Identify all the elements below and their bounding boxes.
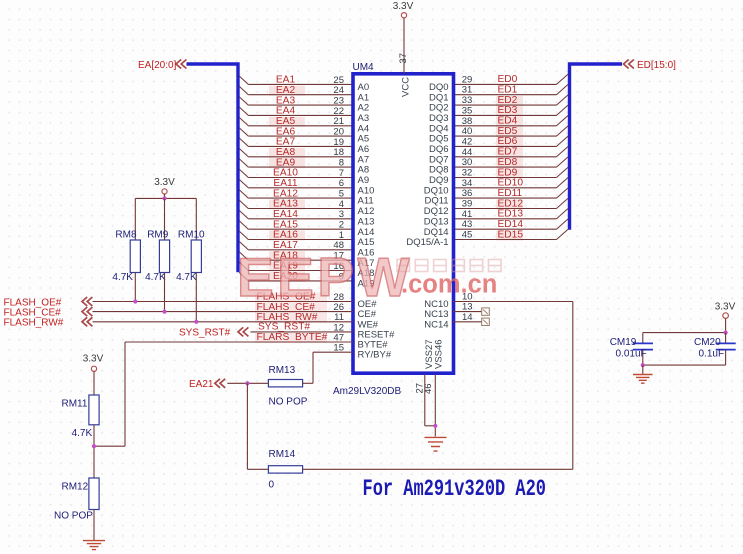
svg-text:0.01uF: 0.01uF <box>616 349 647 360</box>
svg-text:FLASH_RW#: FLASH_RW# <box>4 318 64 329</box>
chip body fill <box>353 74 454 373</box>
wire RM10 top lead <box>195 198 197 240</box>
svg-text:For Am291v320D A20: For Am291v320D A20 <box>363 476 547 503</box>
svg-text:0.1uF: 0.1uF <box>699 349 725 360</box>
resistor RM10 <box>191 240 201 273</box>
EA bus <box>187 64 239 272</box>
wire ED15 / bus entry <box>453 239 557 241</box>
wire ED5 / bus entry <box>453 135 557 137</box>
wire FLASH_RW# <box>93 321 354 323</box>
wire power to RM11 <box>93 371 95 395</box>
svg-text:45: 45 <box>462 230 473 241</box>
svg-text:EA9: EA9 <box>276 157 296 168</box>
svg-text:DQ11: DQ11 <box>424 196 448 207</box>
wire RM8 top lead <box>134 198 136 240</box>
wire to ground <box>642 365 644 374</box>
wire EA19 / bus entry <box>239 262 248 270</box>
wire bottom rail caps <box>643 364 726 366</box>
wire VCC <box>403 18 405 74</box>
junction RM9/CE <box>162 310 166 314</box>
resistor RM13 <box>268 380 302 387</box>
junction rail <box>162 196 166 200</box>
wire EA15 / bus entry <box>239 221 248 229</box>
svg-text:4.7K: 4.7K <box>145 272 166 283</box>
wire RM12 to ground <box>93 510 95 541</box>
svg-text:RM10: RM10 <box>178 230 205 241</box>
svg-text:3.3V: 3.3V <box>715 302 736 313</box>
svg-text:3.3V: 3.3V <box>393 1 414 12</box>
wire EA18 / bus entry <box>239 252 248 260</box>
wire EA6 / bus entry <box>239 128 248 136</box>
svg-text:A8: A8 <box>358 165 370 176</box>
svg-text:19: 19 <box>333 137 344 148</box>
wire ED9 / bus entry <box>453 177 557 179</box>
svg-text:4.7K: 4.7K <box>176 272 197 283</box>
port EA[20:0] <box>176 60 186 69</box>
svg-text:4.7K: 4.7K <box>72 428 93 439</box>
wire EA16 / bus entry <box>239 231 248 239</box>
no-connect box pin 13 <box>482 308 490 315</box>
svg-text:EEPW: EEPW <box>237 246 413 308</box>
svg-text:30: 30 <box>462 157 473 168</box>
wire EA4 / bus entry <box>239 107 248 115</box>
svg-text:37: 37 <box>398 53 409 64</box>
svg-text:ED8: ED8 <box>498 157 518 168</box>
svg-text:22: 22 <box>333 106 344 117</box>
svg-text:EA12: EA12 <box>273 188 298 199</box>
svg-text:.com.cn: .com.cn <box>401 271 497 299</box>
svg-text:3.3V: 3.3V <box>83 353 104 364</box>
svg-text:RM9: RM9 <box>147 230 169 241</box>
svg-text:42: 42 <box>462 136 473 147</box>
wire EA10 / bus entry <box>239 169 248 177</box>
wire EA12 / bus entry <box>239 190 248 198</box>
svg-text:EA14: EA14 <box>273 209 298 220</box>
svg-text:14: 14 <box>462 312 473 323</box>
flash memory U M4 Am29LV320DB chip body <box>353 74 454 373</box>
svg-text:A13: A13 <box>358 216 375 227</box>
svg-text:FLARS_BYTE#: FLARS_BYTE# <box>257 332 328 343</box>
svg-text:ED11: ED11 <box>498 188 523 199</box>
ground caps <box>633 375 653 384</box>
svg-text:CM19: CM19 <box>610 337 637 348</box>
wire FLAHS_BYTE# <box>125 341 353 343</box>
svg-text:RY/BY#: RY/BY# <box>358 350 392 361</box>
wire EA21 <box>227 382 268 384</box>
wire RM11 bottom <box>93 425 95 478</box>
wire EA20 / bus entry <box>239 273 248 281</box>
svg-text:EA7: EA7 <box>276 137 296 148</box>
svg-text:24: 24 <box>333 85 344 96</box>
svg-text:3: 3 <box>339 209 344 220</box>
svg-text:A1: A1 <box>358 92 370 103</box>
wire VSS27 <box>424 374 426 426</box>
wire ED13 / bus entry <box>453 218 557 220</box>
svg-text:RM11: RM11 <box>62 398 88 409</box>
junction RM10/RW <box>194 320 198 324</box>
wire NC14 stub <box>453 321 482 323</box>
capacitor CM19 <box>642 333 644 343</box>
wire ED7 / bus entry <box>453 156 557 158</box>
svg-text:ED6: ED6 <box>498 136 518 147</box>
svg-text:41: 41 <box>462 209 473 220</box>
svg-text:RM13: RM13 <box>269 365 296 376</box>
decorative halo group <box>269 86 305 96</box>
wire EA17 / bus entry <box>239 241 248 249</box>
junction RM8/OE <box>133 299 137 303</box>
svg-text:NO POP: NO POP <box>54 511 93 522</box>
svg-text:5: 5 <box>339 189 344 200</box>
wire RM9 top lead <box>164 198 166 240</box>
wire power down <box>725 318 727 332</box>
wire ED14 / bus entry <box>453 228 557 230</box>
svg-text:RM8: RM8 <box>115 230 137 241</box>
wire EA1 / bus entry <box>239 76 248 84</box>
svg-text:8: 8 <box>339 158 344 169</box>
decorative watermark <box>237 246 413 308</box>
ED bus <box>570 64 623 230</box>
svg-text:NC14: NC14 <box>424 319 448 330</box>
svg-text:NO POP: NO POP <box>269 396 308 407</box>
svg-text:0: 0 <box>269 479 275 490</box>
svg-text:Am29LV320DB: Am29LV320DB <box>333 386 402 397</box>
junction bottom left <box>641 363 645 367</box>
svg-text:DQ3: DQ3 <box>429 113 449 124</box>
svg-text:UM4: UM4 <box>353 62 375 73</box>
wire EA7 / bus entry <box>239 138 248 146</box>
svg-text:ED[15:0]: ED[15:0] <box>637 60 676 71</box>
junction RM11/BYTE wire <box>92 444 96 448</box>
wire ED0 / bus entry <box>453 83 557 85</box>
svg-text:A6: A6 <box>358 144 370 155</box>
junction EA21 <box>245 381 249 385</box>
wire top rail caps <box>643 332 726 334</box>
wire top rail <box>135 197 196 199</box>
svg-text:EA[20:0]: EA[20:0] <box>138 60 177 71</box>
wire ED11 / bus entry <box>453 197 557 199</box>
wire EA2 / bus entry <box>239 86 248 94</box>
svg-text:SYS_RST#: SYS_RST# <box>179 328 231 339</box>
svg-text:RM12: RM12 <box>62 482 89 493</box>
svg-text:ED13: ED13 <box>498 209 524 220</box>
wire ED6 / bus entry <box>453 145 557 147</box>
capacitor CM20 <box>725 333 727 343</box>
svg-text:ED3: ED3 <box>498 105 518 116</box>
wire ED8 / bus entry <box>453 166 557 168</box>
svg-text:35: 35 <box>462 105 473 116</box>
svg-text:DQ1: DQ1 <box>429 92 449 103</box>
wire EA9 / bus entry <box>239 159 248 167</box>
wire EA3 / bus entry <box>239 97 248 105</box>
junction top right <box>724 331 728 335</box>
svg-text:4.7K: 4.7K <box>112 272 133 283</box>
no-connect box pin 14 <box>482 318 490 325</box>
wire RM14 to pin10 <box>303 468 573 470</box>
svg-text:ED1: ED1 <box>498 85 518 96</box>
wire RM10 bottom lead <box>195 273 197 322</box>
svg-text:RM14: RM14 <box>269 449 296 460</box>
wire RM9 bottom lead <box>164 273 166 312</box>
resistor RM11 <box>89 395 99 425</box>
wire ED3 / bus entry <box>453 114 557 116</box>
resistor RM12 <box>89 478 99 510</box>
wire EA5 / bus entry <box>239 117 248 125</box>
wire FLASH_OE# <box>93 301 354 303</box>
svg-text:EA21: EA21 <box>189 379 214 390</box>
wire EA8 / bus entry <box>239 148 248 156</box>
wire ED2 / bus entry <box>453 104 557 106</box>
resistor RM14 <box>268 466 302 473</box>
svg-text:VCC: VCC <box>401 77 412 97</box>
wire ED12 / bus entry <box>453 208 557 210</box>
svg-text:SYS_RST#: SYS_RST# <box>258 322 310 333</box>
svg-text:EA4: EA4 <box>276 106 296 117</box>
svg-text:A11: A11 <box>358 196 374 207</box>
resistor RM9 <box>159 240 169 273</box>
ground below chip <box>425 437 447 451</box>
wire EA11 / bus entry <box>239 179 248 187</box>
wire FLASH_CE# <box>93 311 354 313</box>
wire NC13 stub <box>453 311 482 313</box>
wire power to rail <box>164 194 166 198</box>
resistor RM8 <box>130 240 140 273</box>
wire EA21 down to RM14 <box>246 383 248 469</box>
svg-text:A3: A3 <box>358 113 370 124</box>
ground RM12 <box>83 541 105 550</box>
svg-text:31: 31 <box>462 85 473 96</box>
wire EA14 / bus entry <box>239 210 248 218</box>
wire ED4 / bus entry <box>453 125 557 127</box>
wire VSS46 <box>434 374 436 436</box>
svg-text:ED15: ED15 <box>498 229 524 240</box>
svg-text:VSS46: VSS46 <box>434 339 445 369</box>
svg-text:36: 36 <box>462 188 473 199</box>
wire ED1 / bus entry <box>453 94 557 96</box>
port ED[15:0] <box>624 60 634 69</box>
svg-text:EA2: EA2 <box>276 85 296 96</box>
svg-text:DQ8: DQ8 <box>429 165 449 176</box>
wire SYS_RST# <box>251 331 354 333</box>
wire EA13 / bus entry <box>239 200 248 208</box>
svg-text:3.3V: 3.3V <box>154 177 175 188</box>
svg-text:DQ13: DQ13 <box>424 216 449 227</box>
svg-text:CM20: CM20 <box>694 337 721 348</box>
wire RM13 to RY/BY# <box>303 382 313 384</box>
svg-text:DQ6: DQ6 <box>429 144 449 155</box>
wire ED10 / bus entry <box>453 187 557 189</box>
wire NC10 to RM14 <box>453 301 573 303</box>
wire RM8 bottom lead <box>134 273 136 302</box>
junction VSS <box>433 424 437 428</box>
